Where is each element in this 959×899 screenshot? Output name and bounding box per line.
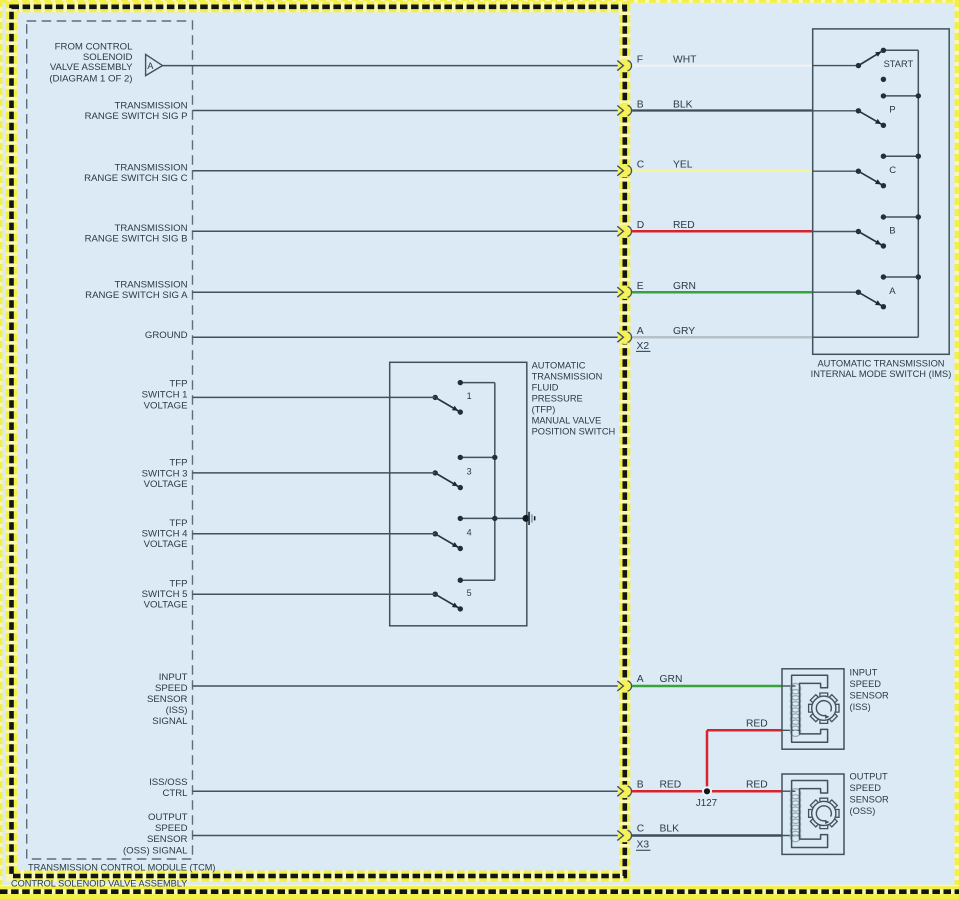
svg-text:TRANSMISSION: TRANSMISSION	[114, 223, 187, 234]
input speed sensor ISS reluctor wheel	[812, 696, 836, 720]
svg-text:B: B	[637, 779, 644, 790]
output speed sensor OSS reluctor wheel	[812, 801, 836, 825]
input speed sensor ISS internal wire stubs	[782, 685, 796, 687]
TFP switch 3 pivot + arm	[433, 470, 438, 475]
svg-text:TFP: TFP	[169, 378, 187, 389]
control solenoid valve assembly outer border (yellow band bottom)	[0, 885, 959, 899]
splice J127 junction dot	[702, 786, 712, 796]
svg-text:SWITCH 4: SWITCH 4	[142, 528, 189, 539]
wire TCM to connector X3 pin A	[193, 685, 620, 687]
svg-text:E: E	[637, 281, 644, 292]
wire RED from X3 pin B to sensor	[631, 790, 782, 793]
svg-text:4: 4	[467, 527, 472, 537]
svg-text:YEL: YEL	[673, 160, 693, 171]
IMS switch P pivot + arm	[856, 108, 861, 113]
svg-text:SIGNAL: SIGNAL	[152, 716, 188, 727]
wire TCM to TFP switch 1	[193, 396, 436, 398]
output speed sensor OSS coil winding	[790, 789, 800, 799]
svg-text:POSITION SWITCH: POSITION SWITCH	[532, 427, 616, 437]
svg-text:FLUID: FLUID	[532, 383, 559, 393]
IMS internal wire from box edge to switch pivot (B)	[813, 110, 859, 112]
wire TCM to TFP switch 5	[193, 593, 436, 595]
svg-text:SENSOR: SENSOR	[147, 694, 188, 705]
svg-text:START: START	[884, 59, 914, 69]
svg-text:SPEED: SPEED	[155, 823, 188, 834]
TFP switch 1 contact line	[460, 382, 495, 384]
svg-text:A: A	[637, 326, 644, 337]
svg-text:B: B	[889, 225, 895, 236]
wire TCM to connector X3 pin C	[193, 835, 620, 837]
IMS switch B bus contact line	[883, 216, 918, 218]
connector X2 pin A (male/female symbol)	[618, 330, 632, 344]
wire TCM from triangle A to connector X2 pin F	[163, 65, 620, 67]
svg-text:X2: X2	[637, 341, 650, 352]
IMS internal wire from box edge to switch pivot (D)	[813, 231, 859, 233]
wire TCM to TFP switch 4	[193, 533, 436, 535]
wire GRN from X2 pin E to IMS	[631, 291, 814, 294]
wire WHT from X2 pin F to IMS	[631, 64, 814, 67]
svg-text:GRN: GRN	[673, 281, 696, 292]
IMS switch P bus contact line	[883, 95, 918, 97]
TFP common bus (vertical)	[494, 383, 496, 581]
IMS switch C bus contact line	[883, 155, 918, 157]
svg-text:J127: J127	[696, 798, 717, 809]
svg-text:F: F	[637, 54, 643, 65]
svg-text:CONTROL SOLENOID VALVE ASSEMBL: CONTROL SOLENOID VALVE ASSEMBLY	[11, 878, 187, 888]
input speed sensor ISS magnetic core	[792, 675, 828, 742]
wire TCM to connector X2 pin A	[193, 336, 620, 338]
svg-text:CTRL: CTRL	[162, 788, 188, 799]
svg-text:TRANSMISSION CONTROL MODULE (T: TRANSMISSION CONTROL MODULE (TCM)	[28, 862, 216, 872]
IMS bus bottom horizontal (GRY ground path inside box)	[813, 336, 919, 338]
IMS common bus (right vertical)	[917, 50, 919, 337]
svg-text:C: C	[889, 165, 896, 176]
connector X2 pin F (male/female symbol)	[618, 59, 632, 73]
svg-text:PRESSURE: PRESSURE	[532, 394, 583, 404]
svg-text:TRANSMISSION: TRANSMISSION	[114, 100, 187, 111]
TCM module boundary (gray dashed box)	[27, 21, 193, 859]
wire TCM to connector X2 pin D	[193, 230, 620, 232]
wire TCM to connector X2 pin B	[193, 110, 620, 112]
svg-text:GRN: GRN	[660, 674, 683, 685]
connector X2 pin C (male/female symbol)	[618, 164, 632, 178]
svg-text:RED: RED	[746, 719, 768, 730]
svg-text:INPUT: INPUT	[159, 672, 188, 683]
wire RED jumper J127 to ISS (horizontal)	[707, 729, 782, 732]
connector X3 pin A (male/female symbol)	[618, 679, 632, 693]
svg-text:A: A	[889, 286, 896, 297]
svg-text:TRANSMISSION: TRANSMISSION	[114, 162, 187, 173]
IMS switch START contact + feed line	[883, 49, 918, 51]
connector X2 pin D (male/female symbol)	[618, 225, 632, 239]
wire BLK from X3 pin C to sensor	[631, 834, 782, 837]
svg-text:VOLTAGE: VOLTAGE	[144, 539, 188, 550]
svg-text:TFP: TFP	[169, 518, 187, 529]
svg-text:P: P	[889, 105, 895, 116]
connector X3 pin C (male/female symbol)	[618, 829, 632, 843]
IMS box (automatic transmission internal mode switch)	[813, 29, 950, 354]
TFP box (manual valve position switch)	[390, 362, 527, 626]
svg-text:RANGE SWITCH SIG A: RANGE SWITCH SIG A	[85, 290, 188, 301]
svg-text:VOLTAGE: VOLTAGE	[144, 400, 188, 411]
svg-text:WHT: WHT	[673, 54, 697, 65]
svg-text:(OSS) SIGNAL: (OSS) SIGNAL	[123, 845, 188, 856]
svg-text:SWITCH 1: SWITCH 1	[142, 389, 188, 400]
IMS switch START open contact dot	[881, 77, 886, 82]
svg-text:RED: RED	[746, 779, 768, 790]
svg-text:TFP: TFP	[169, 578, 187, 589]
svg-text:(TFP): (TFP)	[532, 405, 556, 415]
svg-text:3: 3	[467, 467, 472, 477]
wire BLK from X2 pin B to IMS	[631, 109, 814, 111]
page edge highlight line (yellow dashed, right)	[955, 0, 959, 899]
wire TCM to connector X3 pin B	[193, 790, 620, 792]
svg-text:GROUND: GROUND	[145, 330, 188, 341]
svg-text:SPEED: SPEED	[155, 683, 188, 694]
control solenoid valve assembly highlight border (black dashes)	[12, 7, 625, 876]
output speed sensor OSS internal wire stubs	[782, 790, 796, 792]
input speed sensor ISS box	[782, 669, 844, 749]
svg-text:RED: RED	[673, 220, 695, 231]
svg-text:MANUAL VALVE: MANUAL VALVE	[532, 416, 602, 426]
svg-text:RANGE SWITCH SIG B: RANGE SWITCH SIG B	[85, 233, 188, 244]
TFP switch 4 pivot + arm	[433, 531, 438, 536]
wire GRY from X2 pin A to IMS	[631, 336, 814, 339]
svg-text:TFP: TFP	[169, 457, 187, 468]
svg-text:VOLTAGE: VOLTAGE	[144, 599, 188, 610]
svg-text:D: D	[637, 220, 644, 231]
svg-text:1: 1	[467, 391, 472, 401]
svg-text:INPUT: INPUT	[850, 668, 878, 678]
page edge highlight line (yellow dashed, left)	[0, 0, 2, 899]
TFP switch 5 pivot + arm	[433, 592, 438, 597]
connector X2 pin B (male/female symbol)	[618, 104, 632, 118]
IMS internal wire from box edge to switch pivot (F)	[813, 65, 859, 67]
svg-text:SPEED: SPEED	[850, 783, 882, 793]
svg-text:X3: X3	[637, 840, 650, 851]
svg-text:SENSOR: SENSOR	[850, 795, 890, 805]
svg-text:VOLTAGE: VOLTAGE	[144, 479, 188, 490]
svg-text:SWITCH 5: SWITCH 5	[142, 589, 188, 600]
IMS internal wire from box edge to switch pivot (E)	[813, 291, 859, 293]
svg-text:5: 5	[467, 588, 472, 598]
IMS switch START arm (closed)	[858, 50, 883, 65]
svg-text:(DIAGRAM 1 OF 2): (DIAGRAM 1 OF 2)	[49, 73, 132, 84]
svg-text:BLK: BLK	[660, 824, 680, 835]
wire TCM to TFP switch 3	[193, 472, 436, 474]
svg-text:A: A	[637, 674, 644, 685]
svg-text:AUTOMATIC TRANSMISSION: AUTOMATIC TRANSMISSION	[817, 359, 944, 369]
svg-text:B: B	[637, 99, 644, 110]
svg-text:VALVE ASSEMBLY: VALVE ASSEMBLY	[50, 62, 133, 73]
svg-text:SPEED: SPEED	[850, 679, 882, 689]
svg-text:OUTPUT: OUTPUT	[148, 812, 188, 823]
wire RED from X2 pin D to IMS	[631, 230, 814, 233]
svg-text:A: A	[147, 60, 154, 71]
output speed sensor OSS rotation arrow	[816, 806, 831, 821]
svg-text:(OSS): (OSS)	[850, 806, 876, 816]
svg-text:GRY: GRY	[673, 326, 695, 337]
svg-text:(ISS): (ISS)	[166, 705, 188, 716]
svg-text:TRANSMISSION: TRANSMISSION	[532, 372, 603, 382]
TFP switch 5 contact line	[460, 579, 495, 581]
wire TCM to connector X2 pin E	[193, 291, 620, 293]
svg-text:SWITCH 3: SWITCH 3	[142, 468, 188, 479]
TFP case ground termination at box edge	[523, 515, 530, 522]
svg-text:RANGE SWITCH SIG P: RANGE SWITCH SIG P	[85, 111, 188, 122]
page edge highlight line (yellow dashed, top)	[0, 0, 959, 3]
IMS switch B pivot + arm	[856, 229, 861, 234]
input speed sensor ISS rotation arrow	[816, 701, 831, 716]
input speed sensor ISS coil winding	[790, 683, 800, 693]
svg-text:(ISS): (ISS)	[850, 702, 871, 712]
svg-text:C: C	[637, 824, 645, 835]
wire RED jumper vertical at J127	[706, 730, 709, 791]
TFP switch 4 contact line	[460, 517, 527, 519]
svg-text:OUTPUT: OUTPUT	[850, 772, 889, 782]
svg-text:RED: RED	[660, 779, 682, 790]
TFP switch 3 contact line	[460, 456, 495, 458]
svg-text:INTERNAL MODE SWITCH (IMS): INTERNAL MODE SWITCH (IMS)	[811, 369, 952, 379]
IMS switch A pivot + arm	[856, 290, 861, 295]
svg-text:BLK: BLK	[673, 99, 693, 110]
control solenoid valve assembly highlight border (yellow band)	[12, 7, 625, 876]
svg-text:RANGE SWITCH SIG C: RANGE SWITCH SIG C	[84, 173, 187, 184]
wire GRN from X3 pin A to sensor	[631, 685, 782, 688]
svg-text:SENSOR: SENSOR	[850, 691, 890, 701]
IMS internal wire from box edge to switch pivot (C)	[813, 170, 859, 172]
svg-text:AUTOMATIC: AUTOMATIC	[532, 361, 586, 371]
IMS switch A bus contact line	[883, 276, 918, 278]
svg-text:TRANSMISSION: TRANSMISSION	[114, 279, 187, 290]
wire YEL from X2 pin C to IMS	[631, 169, 814, 172]
TFP switch 1 pivot + arm	[433, 395, 438, 400]
control solenoid valve assembly highlight border (pale dashes)	[12, 7, 625, 876]
connector X3 pin B (male/female symbol)	[618, 785, 632, 799]
connector X2 pin E (male/female symbol)	[618, 285, 632, 299]
svg-text:SENSOR: SENSOR	[147, 834, 188, 845]
svg-text:ISS/OSS: ISS/OSS	[149, 777, 187, 788]
IMS switch C pivot + arm	[856, 169, 861, 174]
svg-text:C: C	[637, 160, 645, 171]
off-page reference triangle A (from control solenoid valve assembly)	[146, 54, 163, 75]
output speed sensor OSS box	[782, 774, 844, 854]
output speed sensor OSS magnetic core	[792, 781, 828, 848]
wire TCM to connector X2 pin C	[193, 170, 620, 172]
